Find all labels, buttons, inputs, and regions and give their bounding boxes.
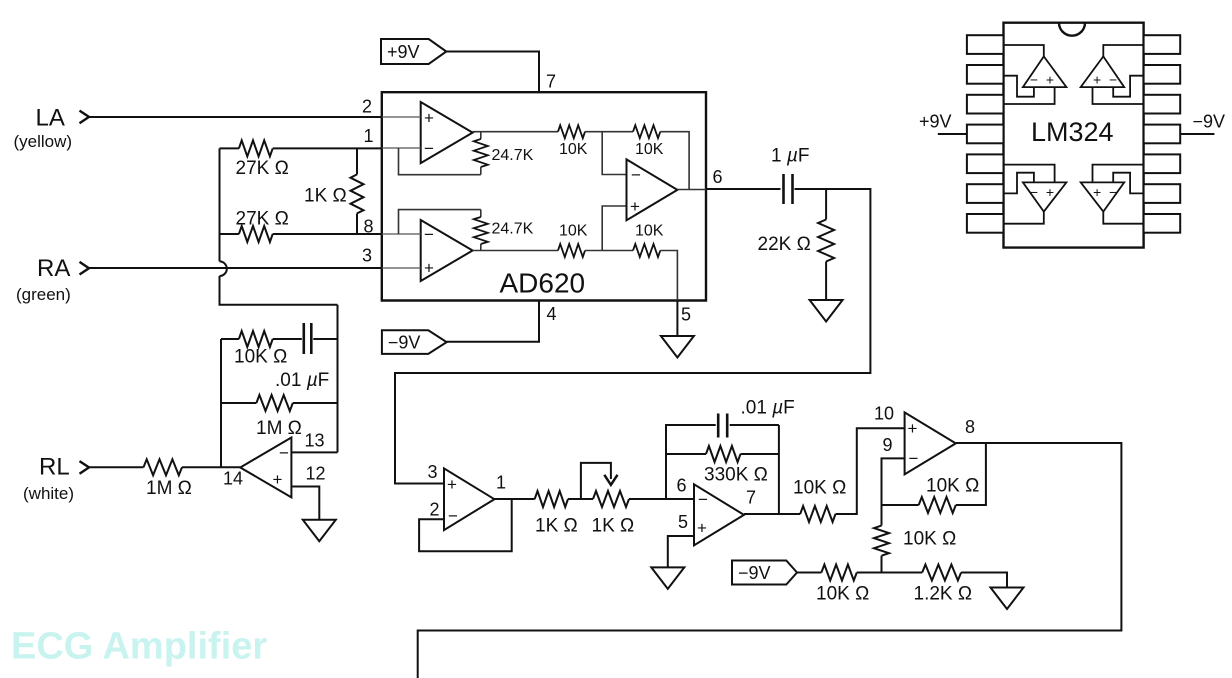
wire U2B output [744,513,800,515]
label 27K (top) [236,158,289,179]
svg-text:−: − [1109,184,1117,200]
IC U2 LM324 body [1004,23,1144,248]
LM324 op-amp 3 (bottom-left) [1023,182,1067,211]
op-amp U2D (right-leg drive) [240,438,291,498]
capacitor .01uF (U2B feedback) [718,414,779,438]
svg-text:+9V: +9V [387,42,420,62]
svg-text:10K: 10K [635,141,664,158]
svg-text:1.2K Ω: 1.2K Ω [914,584,973,605]
wire pin8 to A2 − [382,233,421,235]
wire A2 feedback loop [399,210,481,234]
LM324 notch [1059,23,1085,36]
svg-text:10: 10 [874,404,894,424]
LM324 amp3 wires [1004,165,1055,224]
LM324 op-amp 2 (top-right) [1081,56,1125,87]
svg-text:+: + [630,197,640,216]
label .01 uF (U2B) [741,398,795,419]
LM324 amp4 wires [1093,165,1144,224]
ground (U2D pin 12) [303,520,336,542]
resistor 10K (A3 top feedback) [633,125,660,138]
pin 7 label (U2B) [746,488,756,508]
wire +9V flag to AD620 pin 7 [446,52,539,93]
svg-text:+: + [908,419,918,438]
pin 1 label [496,473,506,493]
svg-text:−: − [424,139,434,158]
wire node V2 row [585,250,633,252]
svg-text:+: + [447,475,457,494]
capacitor 1uF [784,174,793,204]
pin 2 label [362,97,372,117]
svg-text:10K Ω: 10K Ω [926,476,979,497]
wire pin 6 to capacitor [706,188,781,190]
wire RL to 1M [89,466,144,468]
pin 1 label [364,126,374,146]
title ECG Amplifier [11,626,267,668]
svg-text:27K Ω: 27K Ω [236,209,289,230]
resistor 10K (offset divider vertical) [874,505,889,573]
svg-text:7: 7 [546,72,556,92]
svg-text:2: 2 [430,500,440,520]
wire node V1 to A3 − [602,132,626,175]
label 10K vertical [903,529,956,550]
resistor 22K [818,220,834,301]
svg-text:5: 5 [681,305,691,325]
pin 12 label [306,464,326,484]
svg-text:22K Ω: 22K Ω [758,234,811,255]
wire pin 5 to ground [668,536,694,567]
svg-text:10K Ω: 10K Ω [793,478,846,499]
pin 3 label [362,246,372,266]
svg-text:(yellow): (yellow) [14,132,73,151]
wire A1 feedback loop [399,148,481,175]
input RA arrow [80,262,90,275]
pin 5 label (U2B) [678,512,688,532]
label 10K (bottom-right) [635,223,664,240]
wire pin3 to A2 + [382,267,421,269]
svg-text:AD620: AD620 [500,268,586,299]
wire A2 row to pin 5 [660,251,677,301]
label LM324 [1031,117,1114,147]
svg-text:+: + [1093,72,1101,88]
wire -9V to 10K [797,572,821,574]
pin 3 label [428,462,438,482]
label 1 uF [771,146,809,167]
svg-text:.01 µF: .01 µF [275,370,329,391]
op-amp U1.A1 [421,102,473,163]
resistor 27K (RA side) [220,226,382,242]
svg-text:−9V: −9V [388,333,421,353]
wire 27K common node down (with hop over RA) [220,148,338,304]
label 1.2K [914,584,973,605]
svg-text:LM324: LM324 [1031,117,1114,147]
resistor 10K (A1 out) [558,125,585,138]
wire pin2 input to A1 + [382,116,421,118]
label 1M (RL feedback) [256,418,302,439]
svg-text:12: 12 [306,464,326,484]
resistor 1K (series) [535,491,593,507]
wire A2 output row [473,250,558,252]
label (green) [16,285,71,304]
resistor 10K (A2 out) [558,244,585,257]
label .01 uF (RL) [275,370,329,391]
LM324 amp2 wires [1093,45,1144,104]
wire RA to pin 3 [89,267,382,269]
resistor 330K (U2B feedback) [666,446,779,462]
wire node V1 row [585,131,633,133]
LM324 op-amp 1 (top-left) [1023,56,1067,87]
pin 8 label [965,417,975,437]
wire right feedback vertical [337,305,339,453]
wire capacitor to stage 2 [395,189,870,484]
op-amp U2A (buffer) [444,468,494,530]
resistor 10K (offset rail) [821,565,922,581]
svg-text:3: 3 [428,462,438,482]
resistor 24.7K (A2 feedback) [474,210,488,251]
label 10K (top-right) [635,141,664,158]
label 1K series [535,516,578,537]
pin 7 label [546,72,556,92]
pin 9 label [883,435,893,455]
capacitor .01uF (RL feedback) [304,323,338,354]
svg-text:−: − [1030,184,1038,200]
svg-text:.01 µF: .01 µF [741,398,795,419]
svg-text:−: − [448,507,458,526]
wire U2C output loop [418,443,1122,678]
svg-text:(green): (green) [16,285,71,304]
label 24.7K (bottom) [492,221,534,238]
svg-text:ECG Amplifier: ECG Amplifier [11,626,267,668]
svg-text:10K: 10K [559,223,588,240]
resistor 10K (A3 bottom) [633,244,660,257]
wire LA to pin 2 [89,116,382,118]
pin 8 label [364,217,374,237]
pin 13 label [305,431,325,451]
op-amp U2B [694,484,744,545]
ground (AD620 pin 5 ref) [661,336,694,358]
input LA arrow [80,111,90,124]
resistor 27K (LA side) [220,140,382,156]
label 1K pot [592,516,635,537]
svg-text:+: + [1046,72,1054,88]
label 10K rail [816,584,869,605]
label +9V (LM324 pin 4) [919,112,967,135]
power flag -9V (AD620 pin 4) [382,330,447,354]
svg-text:10K Ω: 10K Ω [816,584,869,605]
wire pin 13 to feedback [291,451,337,453]
svg-text:1K Ω: 1K Ω [592,516,635,537]
svg-text:−: − [279,443,289,462]
svg-text:5: 5 [678,512,688,532]
svg-text:RA: RA [37,255,70,282]
svg-text:+: + [697,519,707,538]
label 10K U2C feedback [926,476,979,497]
pin 6 label [713,167,723,187]
pin 2 label [430,500,440,520]
resistor 1M (RL input) [144,459,241,475]
wire A1 output row [473,131,558,133]
svg-text:−9V: −9V [1193,112,1226,132]
resistor 10K (RL feedback) [221,331,302,347]
input LA label [36,105,65,132]
svg-text:24.7K: 24.7K [492,147,534,164]
pot wiper arrow [581,463,618,499]
svg-text:1M Ω: 1M Ω [146,478,192,499]
ground (offset rail) [991,588,1024,610]
svg-text:6: 6 [713,167,723,187]
label 1M (RL input) [146,478,192,499]
input RL arrow [80,461,90,474]
resistor 1K RG [351,148,364,234]
wire node V2 to A3 + [602,206,626,251]
svg-text:10K Ω: 10K Ω [903,529,956,550]
label 10K (bottom-left) [559,223,588,240]
svg-text:6: 6 [677,476,687,496]
pin 5 stub [676,301,678,337]
svg-text:2: 2 [362,97,372,117]
svg-text:−: − [631,165,641,184]
svg-text:10K: 10K [635,223,664,240]
resistor 10K (U2C feedback) [882,443,986,513]
svg-text:+: + [273,470,283,489]
wire pin 9 to feedback node [882,458,905,505]
svg-text:−: − [1109,72,1117,88]
svg-text:3: 3 [362,246,372,266]
ground (U2B pin 5) [651,567,684,589]
wire A3 output to pin 6 [677,189,706,191]
label 27K (bottom) [236,209,289,230]
label 10K (top-left) [559,141,588,158]
wire U2A output [494,498,534,500]
svg-text:14: 14 [223,469,243,489]
svg-text:RL: RL [39,454,70,481]
svg-text:24.7K: 24.7K [492,221,534,238]
label (white) [23,484,74,503]
svg-text:8: 8 [965,417,975,437]
label AD620 [500,268,586,299]
svg-text:1K Ω: 1K Ω [304,186,347,207]
pin 10 label [874,404,894,424]
LM324 right pins 8-14 [1144,35,1181,233]
svg-text:10K Ω: 10K Ω [234,347,287,368]
svg-text:1M Ω: 1M Ω [256,418,302,439]
label 1K RG [304,186,347,207]
input RL label [39,454,70,481]
wire U2B feedback left vertical [666,425,716,499]
svg-text:1 µF: 1 µF [771,146,809,167]
svg-text:13: 13 [305,431,325,451]
svg-text:+9V: +9V [919,112,952,132]
svg-text:1K Ω: 1K Ω [535,516,578,537]
wire pin1 to A1 − [382,147,421,149]
op-amp U1.A2 [421,220,473,281]
svg-text:27K Ω: 27K Ω [236,158,289,179]
svg-text:4: 4 [547,304,557,324]
wire left feedback vertical [220,339,222,467]
svg-text:−: − [1030,72,1038,88]
label 24.7K (top) [492,147,534,164]
svg-text:7: 7 [746,488,756,508]
op-amp U2C [905,412,956,474]
potentiometer 1K [593,491,694,507]
wire U2A feedback [419,499,512,551]
svg-text:9: 9 [883,435,893,455]
svg-text:+: + [424,108,434,127]
label 10K (RL feedback) [234,347,287,368]
IC U1 AD620 body [382,92,706,300]
input RA label [37,255,70,282]
wire 10K to output corner [660,132,689,190]
resistor 24.7K (A1 feedback) [474,132,488,175]
LM324 left pins 1-7 [967,35,1004,233]
svg-text:1: 1 [496,473,506,493]
svg-text:−: − [698,490,708,509]
pin 4 stub and wire to -9V flag [447,301,539,342]
svg-text:LA: LA [36,105,65,132]
op-amp U1.A3 [627,159,678,220]
svg-text:−: − [424,225,434,244]
svg-text:−9V: −9V [738,563,771,583]
pin 5 label [681,305,691,325]
ground (22K) [810,300,843,322]
svg-text:−: − [909,449,919,468]
svg-text:+: + [424,258,434,277]
LM324 amp1 wires [1004,45,1055,104]
label (yellow) [14,132,73,151]
label 10K series [793,478,846,499]
wire pin 12 to ground [291,487,319,520]
resistor 1M (RL feedback) [221,395,338,411]
svg-text:+: + [1093,184,1101,200]
resistor 10K (series to U2C) [800,428,904,522]
label -9V (LM324 pin 11) [1180,112,1225,135]
svg-text:330K Ω: 330K Ω [704,465,768,486]
power flag +9V (AD620 pin 7 supply) [381,39,446,64]
LM324 op-amp 4 (bottom-right) [1081,182,1125,211]
svg-text:(white): (white) [23,484,74,503]
pin 14 label [223,469,243,489]
svg-text:+: + [1046,184,1054,200]
wire U2B feedback right vertical [778,425,780,514]
label 22K [758,234,811,255]
svg-text:1: 1 [364,126,374,146]
pin 4 label [547,304,557,324]
wire 22K branch [825,189,827,220]
label 330K [704,465,768,486]
svg-text:10K: 10K [559,141,588,158]
pin 6 label (U2B) [677,476,687,496]
resistor 1.2K [922,565,1007,588]
power flag -9V (offset) [732,561,797,585]
